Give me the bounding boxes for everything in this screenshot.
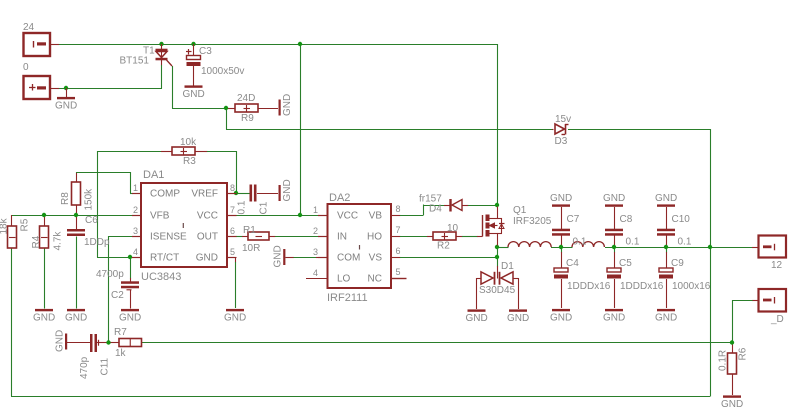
svg-text:R4: R4 — [31, 235, 42, 248]
svg-text:S30D45: S30D45 — [479, 285, 516, 296]
svg-text:GND: GND — [603, 193, 625, 204]
svg-text:C3: C3 — [199, 46, 212, 57]
svg-text:3: 3 — [133, 226, 138, 236]
svg-text:VCC: VCC — [197, 211, 218, 222]
svg-text:GND: GND — [33, 313, 55, 324]
svg-text:D1: D1 — [501, 261, 514, 272]
svg-text:IRF2111: IRF2111 — [327, 292, 368, 304]
svg-text:GND: GND — [550, 313, 572, 324]
svg-text:24: 24 — [23, 22, 35, 33]
svg-text:4: 4 — [313, 268, 318, 278]
svg-text:7: 7 — [395, 225, 400, 235]
svg-text:GND: GND — [550, 193, 572, 204]
svg-text:LO: LO — [337, 274, 351, 285]
svg-text:R5: R5 — [20, 218, 31, 231]
svg-text:DA1: DA1 — [143, 169, 164, 181]
svg-text:GND: GND — [224, 313, 246, 324]
svg-text:10k: 10k — [180, 137, 197, 148]
svg-text:GND: GND — [183, 89, 205, 100]
svg-text:C8: C8 — [620, 214, 633, 225]
svg-text:8: 8 — [395, 204, 400, 214]
svg-text:R7: R7 — [114, 327, 127, 338]
svg-text:1: 1 — [133, 183, 138, 193]
svg-text:1: 1 — [313, 205, 318, 215]
svg-text:15v: 15v — [555, 114, 571, 125]
svg-text:R2: R2 — [437, 241, 450, 252]
svg-text:NC: NC — [368, 274, 382, 285]
svg-text:COMP: COMP — [150, 189, 180, 200]
svg-text:C10: C10 — [672, 214, 691, 225]
svg-text:1DDDx16: 1DDDx16 — [567, 281, 611, 292]
svg-text:1000x50v: 1000x50v — [201, 66, 244, 77]
svg-text:0: 0 — [23, 62, 29, 73]
svg-text:GND: GND — [603, 313, 625, 324]
svg-text:R8: R8 — [60, 192, 71, 205]
svg-text:GND: GND — [721, 399, 743, 410]
svg-text:GND: GND — [55, 330, 66, 352]
svg-text:3: 3 — [313, 247, 318, 257]
svg-text:R6: R6 — [738, 347, 749, 360]
svg-text:1DDp: 1DDp — [84, 237, 110, 248]
svg-text:GND: GND — [65, 313, 87, 324]
svg-text:VFB: VFB — [150, 211, 170, 222]
svg-text:10: 10 — [447, 223, 459, 234]
svg-text:0.1: 0.1 — [237, 200, 248, 214]
svg-text:Q1: Q1 — [513, 205, 527, 216]
svg-text:OUT: OUT — [197, 232, 218, 243]
svg-text:GND: GND — [655, 193, 677, 204]
svg-text:GND: GND — [55, 101, 77, 112]
svg-text:GND: GND — [282, 179, 293, 201]
svg-text:2: 2 — [313, 226, 318, 236]
svg-text:GND: GND — [655, 313, 677, 324]
svg-text:8: 8 — [230, 183, 235, 193]
svg-text:0.1R: 0.1R — [718, 350, 729, 371]
svg-text:150k: 150k — [84, 188, 95, 211]
svg-text:4.7k: 4.7k — [52, 231, 63, 251]
svg-text:R1: R1 — [243, 225, 256, 236]
svg-text:6: 6 — [230, 226, 235, 236]
svg-text:GND: GND — [273, 245, 284, 267]
svg-text:5: 5 — [395, 267, 400, 277]
svg-text:6: 6 — [395, 246, 400, 256]
svg-text:1k: 1k — [115, 348, 127, 359]
svg-text:VREF: VREF — [191, 189, 218, 200]
svg-text:18k: 18k — [0, 217, 10, 234]
svg-text:C1: C1 — [259, 201, 270, 214]
svg-text:0.1: 0.1 — [626, 237, 640, 248]
svg-text:UC3843: UC3843 — [141, 271, 181, 283]
svg-text:_D: _D — [770, 314, 784, 325]
svg-text:GND: GND — [282, 94, 293, 116]
svg-text:1DDDx16: 1DDDx16 — [620, 281, 664, 292]
svg-text:C2: C2 — [111, 290, 124, 301]
svg-text:HO: HO — [367, 232, 382, 243]
svg-text:24D: 24D — [237, 93, 255, 104]
svg-text:0.1: 0.1 — [573, 237, 587, 248]
svg-text:R3: R3 — [183, 156, 196, 167]
svg-text:12: 12 — [771, 260, 783, 271]
svg-text:IRF3205: IRF3205 — [513, 216, 552, 227]
svg-text:4700p: 4700p — [96, 269, 124, 280]
svg-text:COM: COM — [337, 253, 360, 264]
svg-text:C7: C7 — [567, 214, 580, 225]
svg-text:C9: C9 — [671, 258, 684, 269]
svg-text:GND: GND — [466, 313, 488, 324]
svg-text:RT/CT: RT/CT — [150, 253, 179, 264]
svg-text:D4: D4 — [429, 204, 442, 215]
svg-text:GND: GND — [196, 253, 218, 264]
svg-text:DA2: DA2 — [329, 192, 350, 204]
svg-text:GND: GND — [507, 313, 529, 324]
svg-text:4: 4 — [133, 247, 138, 257]
svg-text:BT151: BT151 — [120, 56, 150, 67]
svg-text:ISENSE: ISENSE — [150, 232, 187, 243]
svg-text:C4: C4 — [566, 258, 579, 269]
svg-text:IN: IN — [337, 232, 347, 243]
svg-text:C6: C6 — [85, 215, 98, 226]
svg-text:2: 2 — [133, 205, 138, 215]
svg-text:0.1: 0.1 — [678, 237, 692, 248]
svg-text:7: 7 — [230, 205, 235, 215]
svg-text:GND: GND — [119, 313, 141, 324]
svg-text:VS: VS — [369, 253, 383, 264]
svg-text:1000x16: 1000x16 — [672, 281, 711, 292]
svg-text:VB: VB — [369, 211, 383, 222]
svg-text:D3: D3 — [555, 136, 568, 147]
svg-text:R9: R9 — [241, 113, 254, 124]
svg-text:VCC: VCC — [337, 211, 358, 222]
svg-text:C5: C5 — [619, 258, 632, 269]
svg-text:5: 5 — [230, 247, 235, 257]
svg-text:C11: C11 — [100, 357, 111, 375]
svg-text:10R: 10R — [242, 243, 260, 254]
svg-text:470p: 470p — [79, 356, 90, 379]
